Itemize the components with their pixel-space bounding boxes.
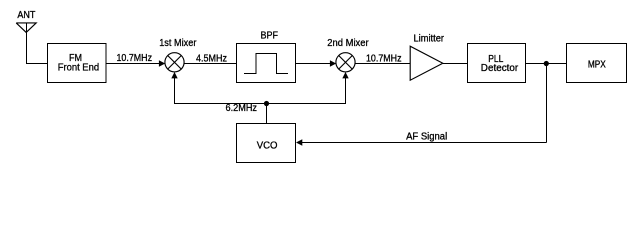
wire limiter to PLL detector	[443, 63, 468, 65]
arrowhead into 2nd mixer bottom	[342, 72, 348, 78]
arrowhead into 1st mixer bottom	[171, 72, 177, 78]
wire PLL detector to MPX	[526, 63, 567, 65]
svg-text:Detector: Detector	[481, 63, 519, 74]
block PLL Detector	[468, 44, 526, 83]
block MPX	[567, 44, 627, 83]
junction dot on VCO bus	[264, 101, 269, 106]
junction dot on PLL-MPX wire	[544, 61, 549, 66]
svg-text:4.5MHz: 4.5MHz	[196, 54, 227, 65]
wire FM front end to 1st mixer	[106, 63, 160, 65]
block FM Front End	[48, 44, 107, 83]
svg-text:AF Signal: AF Signal	[406, 131, 447, 142]
wire VCO feed down from 1st mixer	[174, 78, 176, 104]
wire AF feedback to VCO	[301, 142, 547, 144]
svg-text:ANT: ANT	[17, 10, 35, 21]
svg-text:10.7MHz: 10.7MHz	[117, 53, 153, 64]
wire 1st mixer to BPF	[184, 63, 236, 65]
wire antenna to FM front end	[26, 63, 48, 65]
svg-text:Front End: Front End	[58, 63, 99, 74]
svg-text:BPF: BPF	[261, 31, 279, 42]
svg-text:Limitter: Limitter	[414, 34, 445, 45]
arrowhead into VCO right side	[296, 139, 302, 145]
arrowhead into 1st mixer	[159, 60, 165, 66]
antenna symbol	[16, 23, 36, 64]
block BPF	[237, 44, 296, 83]
svg-text:1st Mixer: 1st Mixer	[159, 38, 197, 49]
wire junction to VCO	[266, 104, 268, 124]
mixer M2	[336, 53, 355, 72]
amplifier limiter triangle	[410, 46, 443, 80]
wire AF feedback down from junction	[546, 64, 548, 143]
svg-text:10.7MHz: 10.7MHz	[366, 54, 402, 65]
mixer M1	[165, 53, 184, 72]
wire up to 2nd mixer	[345, 78, 347, 104]
svg-text:VCO: VCO	[257, 141, 278, 152]
svg-text:2nd Mixer: 2nd Mixer	[327, 38, 369, 49]
svg-text:MPX: MPX	[588, 60, 606, 71]
block VCO	[237, 124, 296, 163]
wire bottom bus	[174, 103, 346, 105]
arrowhead into 2nd mixer	[330, 60, 336, 66]
wire 2nd mixer to limiter	[355, 63, 410, 65]
svg-text:6.2MHz: 6.2MHz	[226, 103, 258, 114]
wire BPF to 2nd mixer	[296, 63, 332, 65]
